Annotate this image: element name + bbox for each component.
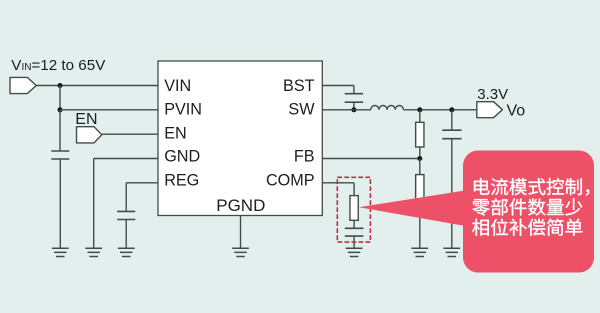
node: FB junction bbox=[417, 156, 422, 161]
svg-text:EN: EN bbox=[75, 111, 97, 128]
svg-text:VIN: VIN bbox=[164, 77, 191, 95]
ground (R2) bbox=[411, 247, 428, 249]
svg-text:FB: FB bbox=[294, 148, 315, 166]
wire FB node down to resistor R2 bbox=[419, 159, 421, 175]
svg-text:Vo: Vo bbox=[507, 103, 526, 120]
op-amp U1 (buck converter IC body) bbox=[158, 61, 322, 216]
capacitor C2 (REG bypass) bbox=[117, 210, 135, 212]
highlight dashed box around compensation network bbox=[337, 177, 370, 242]
ground (compensation network) bbox=[346, 247, 363, 249]
svg-text:BST: BST bbox=[283, 77, 315, 95]
node: VIN junction bbox=[58, 83, 63, 88]
wire junction down to PVIN junction bbox=[59, 86, 61, 110]
svg-text:GND: GND bbox=[164, 148, 200, 166]
ground (GND pin) bbox=[85, 247, 102, 249]
resistor R2 (FB lower divider) bbox=[416, 175, 424, 200]
wire output cap junction down to C3 bbox=[451, 110, 453, 130]
wire REG pin to left bbox=[126, 182, 158, 184]
node: output capacitor junction bbox=[449, 107, 454, 112]
wire C3 to ground bbox=[451, 139, 453, 249]
ground (REG capacitor) bbox=[118, 247, 135, 249]
wire FB pin right bbox=[322, 158, 420, 160]
wire R3 to capacitor C4 bbox=[353, 220, 355, 228]
callout pointer wedge bbox=[359, 191, 464, 226]
resistor R3 (compensation) bbox=[350, 196, 358, 221]
wire GND pin to left bbox=[94, 158, 158, 160]
capacitor C4 (compensation) bbox=[345, 227, 364, 229]
node: SW / bootstrap junction bbox=[351, 107, 356, 112]
callout text line 1: 电流模式控制， bbox=[474, 178, 490, 195]
svg-text:PVIN: PVIN bbox=[164, 101, 202, 119]
wire GND down to ground bbox=[93, 159, 95, 249]
wire COMP down to resistor R3 bbox=[353, 183, 355, 196]
wire SW pin to inductor bbox=[322, 109, 371, 111]
wire COMP pin right bbox=[322, 182, 354, 184]
wire C2 to ground bbox=[125, 220, 127, 249]
ground (output capacitor) bbox=[443, 247, 460, 249]
svg-text:3.3V: 3.3V bbox=[477, 86, 508, 103]
wire R1 to FB node bbox=[419, 147, 421, 159]
ground (input capacitor) bbox=[52, 247, 69, 249]
capacitor C1 (input) bbox=[51, 150, 69, 152]
wire BST pin right bbox=[322, 85, 354, 87]
node: L1 / R1 junction bbox=[417, 107, 422, 112]
wire C5 to SW node bbox=[353, 102, 355, 110]
callout box (red rounded) bbox=[463, 151, 594, 273]
svg-text:EN: EN bbox=[164, 124, 187, 142]
wire VIN input to IC bbox=[36, 85, 158, 87]
callout text line 3: 相位补偿简单 bbox=[472, 219, 489, 236]
wire C1 to ground bbox=[59, 159, 61, 248]
inductor L1 bbox=[371, 106, 404, 110]
wire down to input capacitor C1 bbox=[59, 110, 61, 151]
output terminal flag Vo bbox=[477, 102, 503, 118]
wire BST down to capacitor C5 bbox=[353, 86, 355, 94]
input terminal flag VIN bbox=[10, 77, 36, 93]
wire REG down to capacitor C2 bbox=[125, 183, 127, 212]
ground (PGND) bbox=[232, 247, 249, 249]
capacitor C3 (output) bbox=[442, 129, 461, 131]
svg-text:COMP: COMP bbox=[266, 172, 315, 190]
resistor R1 (FB upper divider) bbox=[416, 122, 424, 147]
wire inductor to output bbox=[403, 109, 476, 111]
wire down to resistor R1 bbox=[419, 110, 421, 123]
wire PGND to ground bbox=[240, 216, 242, 249]
svg-text:PGND: PGND bbox=[216, 196, 265, 215]
node: PVIN junction bbox=[58, 107, 63, 112]
wire PVIN junction to IC bbox=[60, 109, 158, 111]
wire C4 to ground bbox=[353, 236, 355, 248]
callout text line 2: 零部件数量少 bbox=[472, 199, 489, 216]
capacitor C5 (bootstrap) bbox=[345, 93, 363, 95]
input terminal flag EN bbox=[77, 127, 102, 143]
svg-text:SW: SW bbox=[288, 101, 315, 119]
wire EN flag to IC bbox=[102, 133, 158, 135]
wire R2 to ground bbox=[419, 199, 421, 248]
svg-text:REG: REG bbox=[164, 172, 199, 190]
